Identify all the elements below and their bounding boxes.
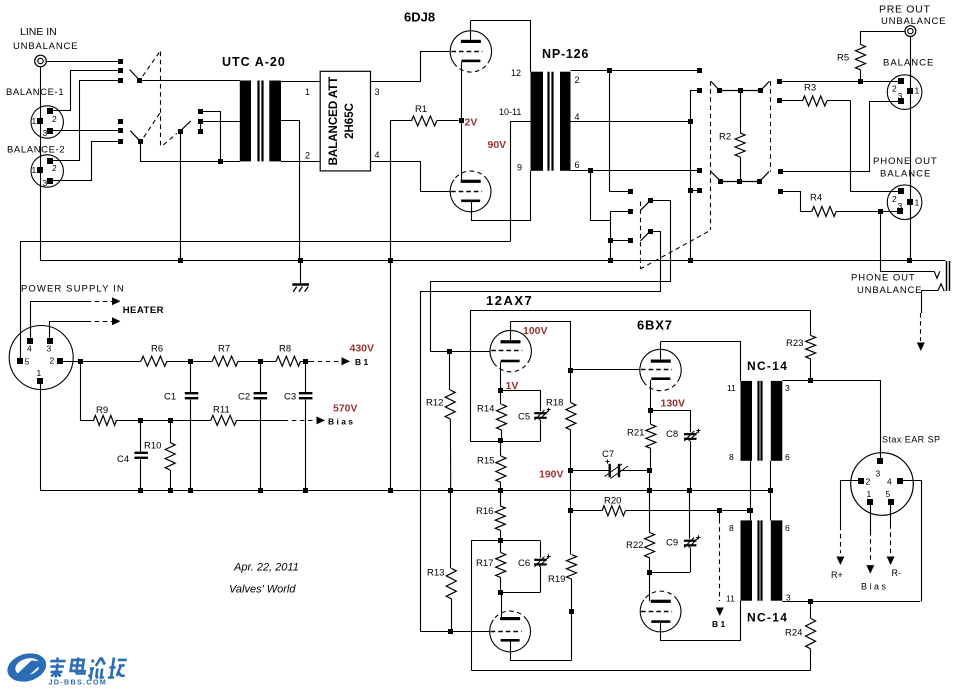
wire R22 chain from bus: [649, 491, 651, 533]
junction R5 output: [858, 79, 863, 84]
label R18: [546, 398, 563, 409]
capacitor C5: [501, 391, 551, 442]
switch SW2a pole lower: [640, 229, 653, 241]
wire BALANCE-2 pin3 to contact: [53, 142, 120, 181]
wire pin4 heater: [31, 302, 87, 341]
svg-text:6: 6: [785, 452, 790, 462]
junction grid A: [447, 349, 452, 354]
wire R21 to bus: [649, 471, 651, 491]
wire BALANCE-1 pin2 to contact: [53, 71, 120, 111]
resistor R12: [445, 352, 455, 491]
svg-text:R18: R18: [546, 398, 563, 409]
svg-text:R7: R7: [218, 344, 230, 355]
wire V1a plate to NP-126 pin12: [471, 21, 531, 72]
resistor R23: [806, 311, 816, 381]
connector J1 RCA line in: [35, 55, 47, 67]
label C1: [164, 392, 176, 403]
junction C7 left: [568, 468, 573, 473]
dashed arrow R+: [836, 526, 844, 565]
svg-text:8: 8: [729, 452, 734, 462]
wire V2b cathode elbow: [511, 642, 572, 661]
wire R7 to R8: [238, 361, 276, 363]
svg-text:9: 9: [517, 163, 522, 173]
wire R6 to R7: [167, 361, 212, 363]
svg-text:C6: C6: [518, 558, 530, 569]
switch SW1a pole and arm: [130, 70, 142, 83]
pin label 12: [511, 68, 521, 78]
svg-text:90V: 90V: [488, 139, 507, 151]
svg-text:R2: R2: [719, 132, 731, 143]
svg-text:3: 3: [43, 128, 48, 138]
junction T2-4: [688, 119, 693, 124]
text valves world: [229, 584, 296, 596]
tube V3b cathode: [651, 620, 670, 623]
svg-text:2: 2: [305, 151, 310, 161]
svg-text:3: 3: [876, 469, 881, 479]
junction lower grid node: [569, 609, 574, 614]
svg-text:6BX7: 6BX7: [637, 318, 673, 333]
label R19: [548, 574, 565, 585]
wire V2a cathode down: [500, 362, 502, 390]
svg-text:R12: R12: [426, 398, 443, 409]
junction bus3 C1: [188, 488, 193, 493]
wire contact to R4: [780, 192, 811, 212]
junction R17 top: [498, 538, 503, 543]
switch SW3a left contacts: [697, 68, 702, 93]
svg-text:B 1: B 1: [355, 357, 369, 367]
label R12: [426, 398, 443, 409]
junction bus3 R21 R22: [647, 488, 652, 493]
wire chain bottom to cathode elbow: [571, 612, 573, 661]
label B1 down: [712, 619, 726, 629]
pin label 9: [517, 163, 522, 173]
svg-text:C9: C9: [666, 538, 678, 549]
wire phone pin3 around to jack tip: [881, 212, 935, 272]
label R15: [477, 456, 494, 467]
capacitor C3: [299, 361, 313, 490]
resistor R4: [812, 207, 836, 217]
resistor R8: [276, 356, 300, 366]
svg-text:1: 1: [915, 86, 920, 96]
label R5: [837, 53, 849, 64]
svg-text:R11: R11: [213, 405, 230, 416]
svg-text:5: 5: [25, 357, 30, 367]
svg-text:BALANCE-2: BALANCE-2: [7, 145, 65, 156]
wire BALANCE-1 pin3 to contact: [53, 130, 120, 132]
junction 100V R18 node: [568, 368, 573, 373]
switch gang dashed link input: [143, 52, 177, 148]
wire balance pin2 line: [780, 81, 898, 83]
svg-text:570V: 570V: [333, 403, 358, 415]
transformer T4 core: [759, 520, 762, 600]
switch SW1a contacts: [118, 59, 123, 83]
pin label 3 ATT: [375, 87, 380, 97]
tube V2a cathode: [501, 360, 520, 363]
tube V1b grid: [451, 191, 482, 193]
svg-text:UNBALANCE: UNBALANCE: [881, 16, 946, 27]
wire V1b cathode to NP-126 pin9: [472, 171, 531, 221]
svg-text:PHONE OUT: PHONE OUT: [851, 273, 916, 284]
wire branch to contact: [691, 190, 700, 192]
svg-text:4: 4: [575, 112, 580, 122]
svg-text:LINE IN: LINE IN: [20, 26, 57, 38]
label Bias stax: [861, 582, 887, 592]
label C4: [117, 454, 129, 465]
connector X1 BALANCE-1 XLR: [31, 106, 63, 138]
svg-text:R22: R22: [626, 540, 643, 551]
ground chassis symbol: [292, 261, 309, 292]
label Bias out: [328, 417, 353, 427]
svg-text:6DJ8: 6DJ8: [404, 10, 435, 25]
label R-: [892, 568, 902, 578]
svg-text:R24: R24: [785, 628, 802, 639]
tube V1a 6DJ8 upper envelope: [450, 31, 491, 72]
switch SW2a pole upper: [640, 198, 653, 210]
transformer T2 label NP-126: [542, 47, 589, 61]
wire grid B stub: [451, 631, 490, 633]
svg-text:2: 2: [866, 477, 871, 487]
svg-text:R5: R5: [837, 53, 849, 64]
junction grid B: [448, 629, 453, 634]
resistor R16: [495, 491, 505, 541]
junction R22 bottom: [647, 570, 652, 575]
svg-text:190V: 190V: [539, 469, 564, 481]
wire R1 left lead and drop to bus: [391, 121, 412, 491]
wire V1a cathode down to 2V node: [461, 62, 463, 121]
svg-text:10-11: 10-11: [499, 107, 521, 117]
node LINE IN label: [20, 26, 57, 38]
label C7: [602, 449, 614, 460]
tube V3a cathode: [651, 377, 670, 380]
wire lower selector common vertical: [610, 211, 612, 260]
svg-text:Apr. 22, 2011: Apr. 22, 2011: [233, 562, 299, 574]
pin label 10-11: [499, 107, 521, 117]
capacitor C8: [684, 429, 700, 491]
svg-text:B 1: B 1: [712, 619, 726, 629]
label C6: [518, 558, 530, 569]
svg-text:BALANCE-1: BALANCE-1: [6, 87, 64, 98]
connector X3 BALANCE out XLR: [887, 75, 922, 110]
label 430V: [350, 343, 375, 355]
bus wire B1 feed horizontal: [21, 242, 511, 362]
tube V1a grid: [451, 51, 482, 53]
svg-text:C7: C7: [602, 449, 614, 460]
wire SW1b pole to UTC primary bottom: [141, 141, 241, 161]
svg-text:2: 2: [50, 356, 55, 366]
resistor R15: [496, 441, 506, 491]
dashed arrow to stax right channel: [917, 313, 925, 351]
junction bus2 x180: [178, 258, 183, 263]
svg-text:1: 1: [305, 87, 310, 97]
svg-text:Valves' World: Valves' World: [229, 584, 296, 596]
svg-text:JD-BBS.COM: JD-BBS.COM: [49, 678, 108, 687]
connector J4 pins: [858, 458, 903, 505]
pin label 6 T4: [785, 523, 790, 533]
label C2: [238, 392, 250, 403]
resistor R3: [780, 96, 850, 106]
tube V3b grid: [641, 611, 672, 613]
dashed heater arrow 2: [87, 317, 121, 325]
svg-text:BALANCE: BALANCE: [883, 58, 934, 69]
junction R20 right end: [747, 508, 752, 513]
label R1: [415, 104, 427, 115]
bus ground rail 2: [40, 260, 945, 262]
svg-text:4: 4: [375, 150, 380, 160]
wire ATT pin3 to 6DJ8 upper grid: [371, 52, 450, 82]
tube V1a cathode: [461, 60, 480, 63]
wire 130V to C8: [651, 411, 691, 433]
junction bus3 C3: [303, 488, 308, 493]
wire pin1 down to ground bus3: [40, 384, 42, 491]
switch SW1c pole and arm: [178, 121, 191, 134]
svg-text:11: 11: [727, 383, 736, 393]
tube V2a 12AX7 upper envelope: [490, 330, 531, 371]
svg-text:R14: R14: [477, 404, 494, 415]
wire R3 to phone pin2: [851, 101, 899, 192]
svg-text:UNBALANCE: UNBALANCE: [857, 285, 922, 296]
junction R20 B1 arrow: [717, 508, 722, 513]
wire balance pin3 elbow: [780, 102, 898, 172]
tube V3a grid: [641, 369, 672, 371]
dashed arrow B1 down: [716, 511, 724, 616]
label R+: [831, 570, 843, 580]
tube V3a 6BX7 upper envelope: [640, 349, 681, 390]
label R21: [627, 428, 644, 439]
wire R4 to phone pin3: [836, 211, 898, 213]
wire vertical top elbow to contact: [610, 211, 630, 213]
tube V2b plate: [500, 592, 520, 620]
wire C8 chain to C9: [689, 491, 691, 539]
logo JD-BBS icon: [4, 649, 50, 686]
node UNBALANCE out label: [881, 16, 946, 27]
junction bus2 x690: [688, 258, 693, 263]
tube V2b grid: [491, 631, 522, 633]
wire 100V node to 6BX7 grid: [571, 369, 640, 371]
junction on UTC primary bottom wire: [218, 159, 223, 164]
node PRE OUT label: [879, 4, 931, 16]
svg-text:5: 5: [886, 489, 891, 499]
label R9: [96, 405, 108, 416]
capacitor C6: [534, 541, 551, 592]
label C8: [666, 429, 678, 440]
resistor R17: [496, 541, 506, 592]
block U1 BALANCED ATT 2H65C: [320, 71, 370, 171]
wire stax pin5 down: [890, 504, 892, 524]
wire RCA to selector contact: [46, 61, 120, 63]
junction 1V node: [498, 388, 503, 393]
label R14: [477, 404, 494, 415]
label 90V: [488, 139, 507, 151]
transformer T3 label NC-14: [747, 359, 788, 373]
svg-text:3: 3: [47, 344, 52, 354]
wire NP-126 pin2 to selector: [571, 70, 700, 72]
resistor R7: [212, 356, 238, 366]
switch SW3b wiper bar: [711, 171, 769, 184]
svg-text:R+: R+: [831, 570, 843, 580]
svg-text:R23: R23: [786, 338, 803, 349]
pin label 8 T4: [729, 523, 734, 533]
transformer T4 label NC-14: [747, 611, 788, 625]
svg-text:R21: R21: [627, 428, 644, 439]
svg-text:C8: C8: [666, 429, 678, 440]
junction 130V node: [648, 408, 653, 413]
svg-text:R3: R3: [804, 83, 816, 94]
logo text jiadian luntan: [48, 658, 127, 678]
junction bus3 C8 C9: [687, 488, 692, 493]
label PHONE OUT unbalance: [851, 273, 916, 284]
svg-text:Stax EAR SP: Stax EAR SP: [882, 435, 940, 445]
wire pin3 heater: [50, 322, 87, 341]
svg-text:12: 12: [511, 68, 521, 78]
connector P1 pins: [17, 338, 63, 384]
junction B1 rail C1: [188, 359, 193, 364]
transformer T1 core: [259, 81, 263, 162]
junction T2-4 branch: [688, 188, 693, 193]
pin label 3 T3: [785, 383, 790, 393]
switch SW3b left contacts: [697, 168, 702, 193]
label HEATER: [123, 305, 164, 316]
label R22: [626, 540, 643, 551]
label B1 out: [355, 357, 369, 367]
svg-text:6: 6: [575, 160, 580, 170]
junction bus3 C4: [138, 488, 143, 493]
wire cathode network bottom rail: [470, 441, 540, 443]
label C5: [518, 412, 530, 423]
wire jack ring to stax arrow: [921, 291, 938, 314]
svg-text:BALANCE: BALANCE: [880, 169, 931, 180]
dashed arrow Bias out: [284, 416, 325, 424]
junction R14 bottom: [498, 438, 503, 443]
connector J2 RCA pre out: [905, 26, 916, 37]
switch SW1b contacts: [118, 119, 123, 144]
wire stax pin4 out: [903, 481, 922, 602]
resistor R2: [735, 91, 745, 182]
junction C7 right: [647, 468, 652, 473]
svg-text:R9: R9: [96, 405, 108, 416]
wire SW1c pole down to ground bus: [180, 131, 182, 261]
svg-text:1: 1: [32, 116, 37, 126]
capacitor C4: [134, 420, 148, 490]
svg-text:2V: 2V: [465, 117, 478, 129]
resistor R9: [94, 415, 117, 425]
tube V3 label 6BX7: [637, 318, 673, 333]
switch SW3a wiper bar: [711, 81, 769, 93]
junction bus2 x391: [388, 258, 393, 263]
junction bus2 x610: [608, 258, 613, 263]
label 190V: [539, 469, 564, 481]
svg-text:3: 3: [898, 91, 903, 101]
wire stax pin1 down: [870, 504, 872, 531]
svg-text:11: 11: [726, 594, 735, 604]
tube V1b 6DJ8 lower envelope: [450, 171, 491, 212]
svg-text:C5: C5: [518, 412, 530, 423]
resistor R14: [497, 391, 507, 441]
pin label 11 T3: [727, 383, 736, 393]
svg-text:3: 3: [898, 201, 903, 211]
tube V3a plate: [651, 342, 671, 363]
wire SW1c contact top elbow: [200, 112, 220, 162]
wire feedback top rail to R23: [471, 311, 811, 442]
wire R9 to R11: [117, 420, 211, 422]
wire V3a plate to NC-14 pin11: [661, 342, 741, 381]
transformer T4 NC-14 bottom windings: [741, 520, 783, 600]
transformer T1 label UTC A-20: [222, 55, 286, 69]
tube V1b cathode: [461, 200, 480, 203]
svg-text:3: 3: [43, 178, 48, 188]
switch SW1b pole and arm: [130, 131, 143, 144]
junction T2-6 takeoff: [588, 168, 593, 173]
wire T2-4 down to ground bus2: [690, 122, 692, 261]
resistor R22: [645, 533, 655, 573]
wire R17 bottom rail: [501, 592, 541, 594]
label R13: [427, 568, 444, 579]
wire SW1c contact mid to UTC primary center: [200, 121, 240, 123]
wire R1 right lead: [437, 120, 459, 122]
transformer T2 core: [549, 72, 553, 171]
connector BALANCE-1 label: [6, 87, 64, 98]
label R11: [213, 405, 230, 416]
wire T2-2 drop to lower selector contact: [610, 71, 631, 192]
svg-text:2: 2: [52, 114, 57, 124]
capacitor C7: [571, 460, 650, 479]
svg-text:C1: C1: [164, 392, 176, 403]
junction R20 left: [568, 508, 573, 513]
wire grid A stub: [450, 351, 490, 353]
dashed arrow R-: [887, 524, 895, 565]
label R10: [144, 441, 161, 452]
label R3: [804, 83, 816, 94]
svg-text:R1: R1: [415, 104, 427, 115]
tube V1a plate: [461, 21, 481, 44]
pin label 4 NP: [575, 112, 580, 122]
svg-text:6: 6: [785, 523, 790, 533]
pin label 2 NP: [575, 75, 580, 85]
svg-text:1: 1: [867, 489, 872, 499]
svg-text:2H65C: 2H65C: [344, 103, 356, 139]
junction R17 bottom: [498, 590, 503, 595]
svg-text:PRE OUT: PRE OUT: [879, 4, 931, 16]
svg-text:NC-14: NC-14: [747, 359, 788, 373]
svg-text:100V: 100V: [523, 325, 548, 337]
resistor R19: [567, 511, 577, 612]
connector P1 power supply circle: [9, 326, 73, 390]
svg-text:2: 2: [892, 84, 897, 94]
wire V3a cathode down: [650, 380, 652, 411]
wire R11 out: [237, 420, 284, 422]
label Stax EAR SP: [882, 435, 940, 445]
svg-text:R4: R4: [810, 193, 822, 204]
tube V3b 6BX7 lower envelope: [640, 591, 681, 632]
junction contact D: [608, 238, 613, 243]
junction R23 bottom: [808, 378, 813, 383]
wire R5 bottom lead: [860, 70, 862, 81]
tube V3b plate: [651, 600, 671, 603]
capacitor C2: [254, 361, 268, 490]
svg-text:4: 4: [27, 344, 32, 354]
junction B1 rail C3: [303, 359, 308, 364]
wire UTC secondary top to ATT pin1: [281, 81, 320, 83]
junction bias C4: [138, 418, 143, 423]
svg-text:R15: R15: [477, 456, 494, 467]
junction bus3 R1: [388, 488, 393, 493]
resistor R5: [856, 44, 866, 70]
switch SW2a contacts: [628, 189, 633, 243]
label PHONE OUT: [873, 156, 938, 167]
wire R22 bottom to C9 bottom: [649, 572, 690, 574]
transformer T3 core: [759, 381, 762, 461]
label POWER SUPPLY IN: [21, 284, 125, 295]
svg-text:4: 4: [887, 477, 892, 487]
